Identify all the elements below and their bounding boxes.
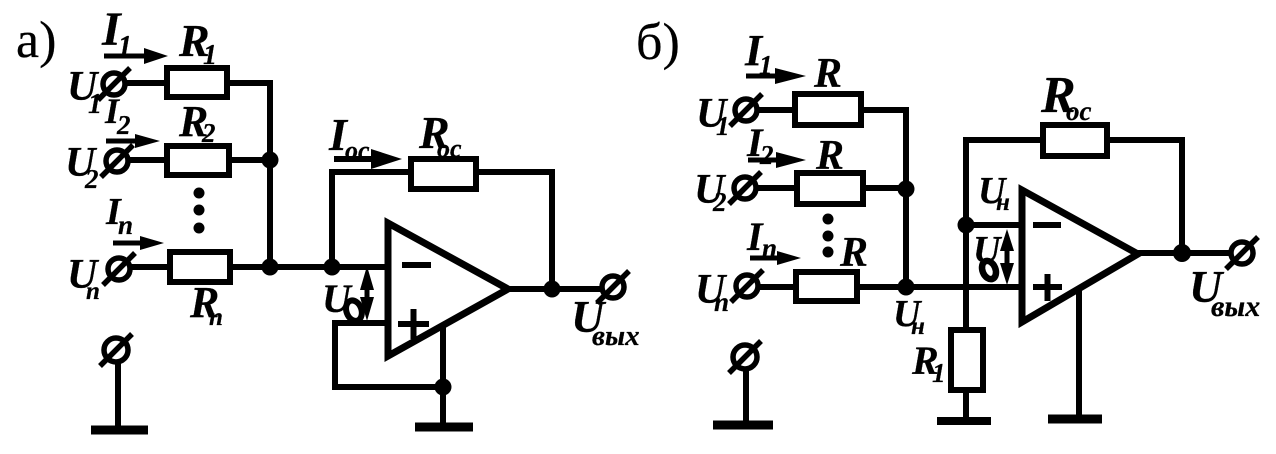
svg-text:ос: ос xyxy=(437,134,462,163)
svg-text:2: 2 xyxy=(759,140,774,170)
svg-text:н: н xyxy=(996,189,1010,216)
svg-text:R: R xyxy=(839,230,868,276)
svg-text:1: 1 xyxy=(932,358,946,388)
svg-text:R: R xyxy=(813,51,842,97)
svg-text:п: п xyxy=(762,233,777,263)
svg-text:2: 2 xyxy=(712,187,727,217)
svg-text:1: 1 xyxy=(759,50,773,80)
svg-text:н: н xyxy=(911,313,925,340)
svg-text:п: п xyxy=(209,304,223,331)
svg-text:1: 1 xyxy=(118,31,132,62)
svg-text:1: 1 xyxy=(88,89,102,120)
svg-text:2: 2 xyxy=(84,164,99,194)
svg-text:б): б) xyxy=(636,14,680,71)
svg-text:а): а) xyxy=(16,12,56,69)
svg-text:2: 2 xyxy=(116,110,131,140)
svg-text:ос: ос xyxy=(1066,96,1092,126)
svg-text:вых: вых xyxy=(592,320,640,352)
svg-text:U: U xyxy=(973,229,1003,271)
svg-text:R: R xyxy=(815,133,844,179)
svg-text:2: 2 xyxy=(201,118,216,148)
svg-text:вых: вых xyxy=(1211,290,1260,323)
svg-text:1: 1 xyxy=(716,111,730,141)
svg-text:п: п xyxy=(714,287,729,317)
svg-text:п: п xyxy=(86,278,100,305)
svg-text:п: п xyxy=(118,210,133,240)
svg-text:1: 1 xyxy=(203,40,217,71)
svg-text:ос: ос xyxy=(345,136,370,165)
